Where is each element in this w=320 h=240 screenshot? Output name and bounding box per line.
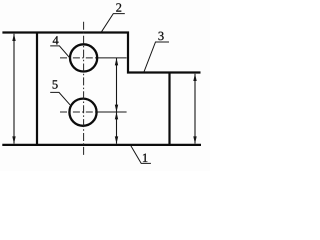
left dimension arrowhead up xyxy=(12,34,15,41)
outline: bottom edge (line 1) xyxy=(2,144,201,146)
outline: right edge of part xyxy=(168,73,170,145)
horizontal centerline of hole 4 xyxy=(60,57,98,59)
extension line from hole 5 center xyxy=(97,111,127,113)
label 5 xyxy=(53,80,58,88)
middle dimension arrowhead down at bottom edge xyxy=(115,136,118,143)
left overall-height dimension line xyxy=(13,34,15,144)
middle dimension line hole4-hole5 and hole5-bottom xyxy=(116,58,118,144)
leader line for label 5 xyxy=(50,92,70,104)
leader line for label 3 xyxy=(144,42,169,72)
outline: top edge (line 2), step vertical, step surface (line 3) xyxy=(2,33,200,73)
right dimension line step-bottom xyxy=(194,74,196,144)
right dimension arrowhead up xyxy=(193,74,196,81)
middle dimension arrowhead up at hole4 center xyxy=(115,58,118,65)
leader line for label 1 xyxy=(131,146,151,164)
label 1 xyxy=(143,154,147,162)
hole 4 circle xyxy=(70,44,97,71)
middle dimension arrowhead up at hole5 center xyxy=(115,112,118,119)
right dimension arrowhead down xyxy=(193,136,196,143)
label 2 xyxy=(116,3,121,11)
leader line for label 4 xyxy=(50,46,69,57)
outline: left edge of part xyxy=(36,32,38,146)
extension line from hole 4 center xyxy=(98,57,127,59)
vertical centerline through holes xyxy=(83,22,85,157)
left dimension arrowhead down xyxy=(12,136,15,143)
horizontal centerline of hole 5 xyxy=(60,111,97,113)
middle dimension arrowhead down at hole5 center xyxy=(115,105,118,112)
label 4 xyxy=(53,36,59,44)
leader line for label 2 xyxy=(102,14,125,32)
label 3 xyxy=(158,32,163,40)
hole 5 circle xyxy=(69,99,96,126)
